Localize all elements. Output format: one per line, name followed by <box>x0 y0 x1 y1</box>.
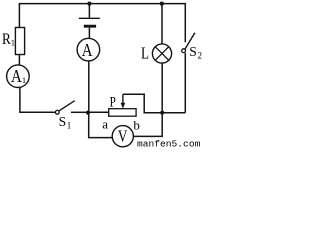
wire left branch top to R1 <box>18 4 20 28</box>
svg-text:manfen5.com: manfen5.com <box>137 139 201 149</box>
svg-text:2: 2 <box>198 51 203 61</box>
svg-text:P: P <box>110 94 116 110</box>
label S2 <box>189 44 202 61</box>
svg-text:R: R <box>2 31 11 48</box>
voltmeter V <box>112 126 133 147</box>
svg-text:V: V <box>118 127 128 146</box>
wire top bus <box>19 3 186 5</box>
battery cell <box>79 4 100 39</box>
ammeter A <box>77 38 100 61</box>
wire ammeter A to bottom node <box>88 61 90 113</box>
node junction lamp top (dot) <box>160 2 164 6</box>
wire rheostat slider to right bus <box>123 94 185 112</box>
svg-text:L: L <box>141 44 149 63</box>
svg-text:a: a <box>102 117 108 132</box>
label R1 <box>2 31 15 48</box>
wire right branch lower <box>184 53 186 113</box>
wire bottom node to voltmeter left <box>89 113 113 138</box>
ammeter A1 <box>7 65 30 88</box>
rheostat P body <box>109 109 136 117</box>
svg-text:1: 1 <box>22 75 26 85</box>
switch S1 <box>55 101 86 115</box>
wire lamp branch upper <box>161 4 163 44</box>
svg-text:1: 1 <box>67 121 72 131</box>
svg-text:S: S <box>59 114 67 129</box>
svg-text:A: A <box>11 66 22 86</box>
wire right branch upper <box>184 4 186 43</box>
wire R1 to ammeter A1 <box>18 55 20 66</box>
svg-text:S: S <box>189 44 197 59</box>
label S1 <box>59 114 72 131</box>
wire lamp bottom through node to voltmeter right <box>133 63 162 136</box>
svg-text:A: A <box>82 40 93 60</box>
wire bottom node to rheostat terminal a <box>88 111 109 113</box>
resistor R1 <box>15 28 24 55</box>
svg-text:b: b <box>133 118 140 133</box>
node junction bottom main (dot) <box>86 111 90 115</box>
node junction lamp bottom (dot) <box>160 111 164 115</box>
switch S2 <box>182 33 195 53</box>
wire A1 to corner to switch S1 <box>20 88 55 113</box>
rheostat slider arrow <box>121 94 126 108</box>
node junction battery top (dot) <box>87 2 91 6</box>
lamp L <box>152 44 171 63</box>
svg-text:1: 1 <box>11 38 15 48</box>
